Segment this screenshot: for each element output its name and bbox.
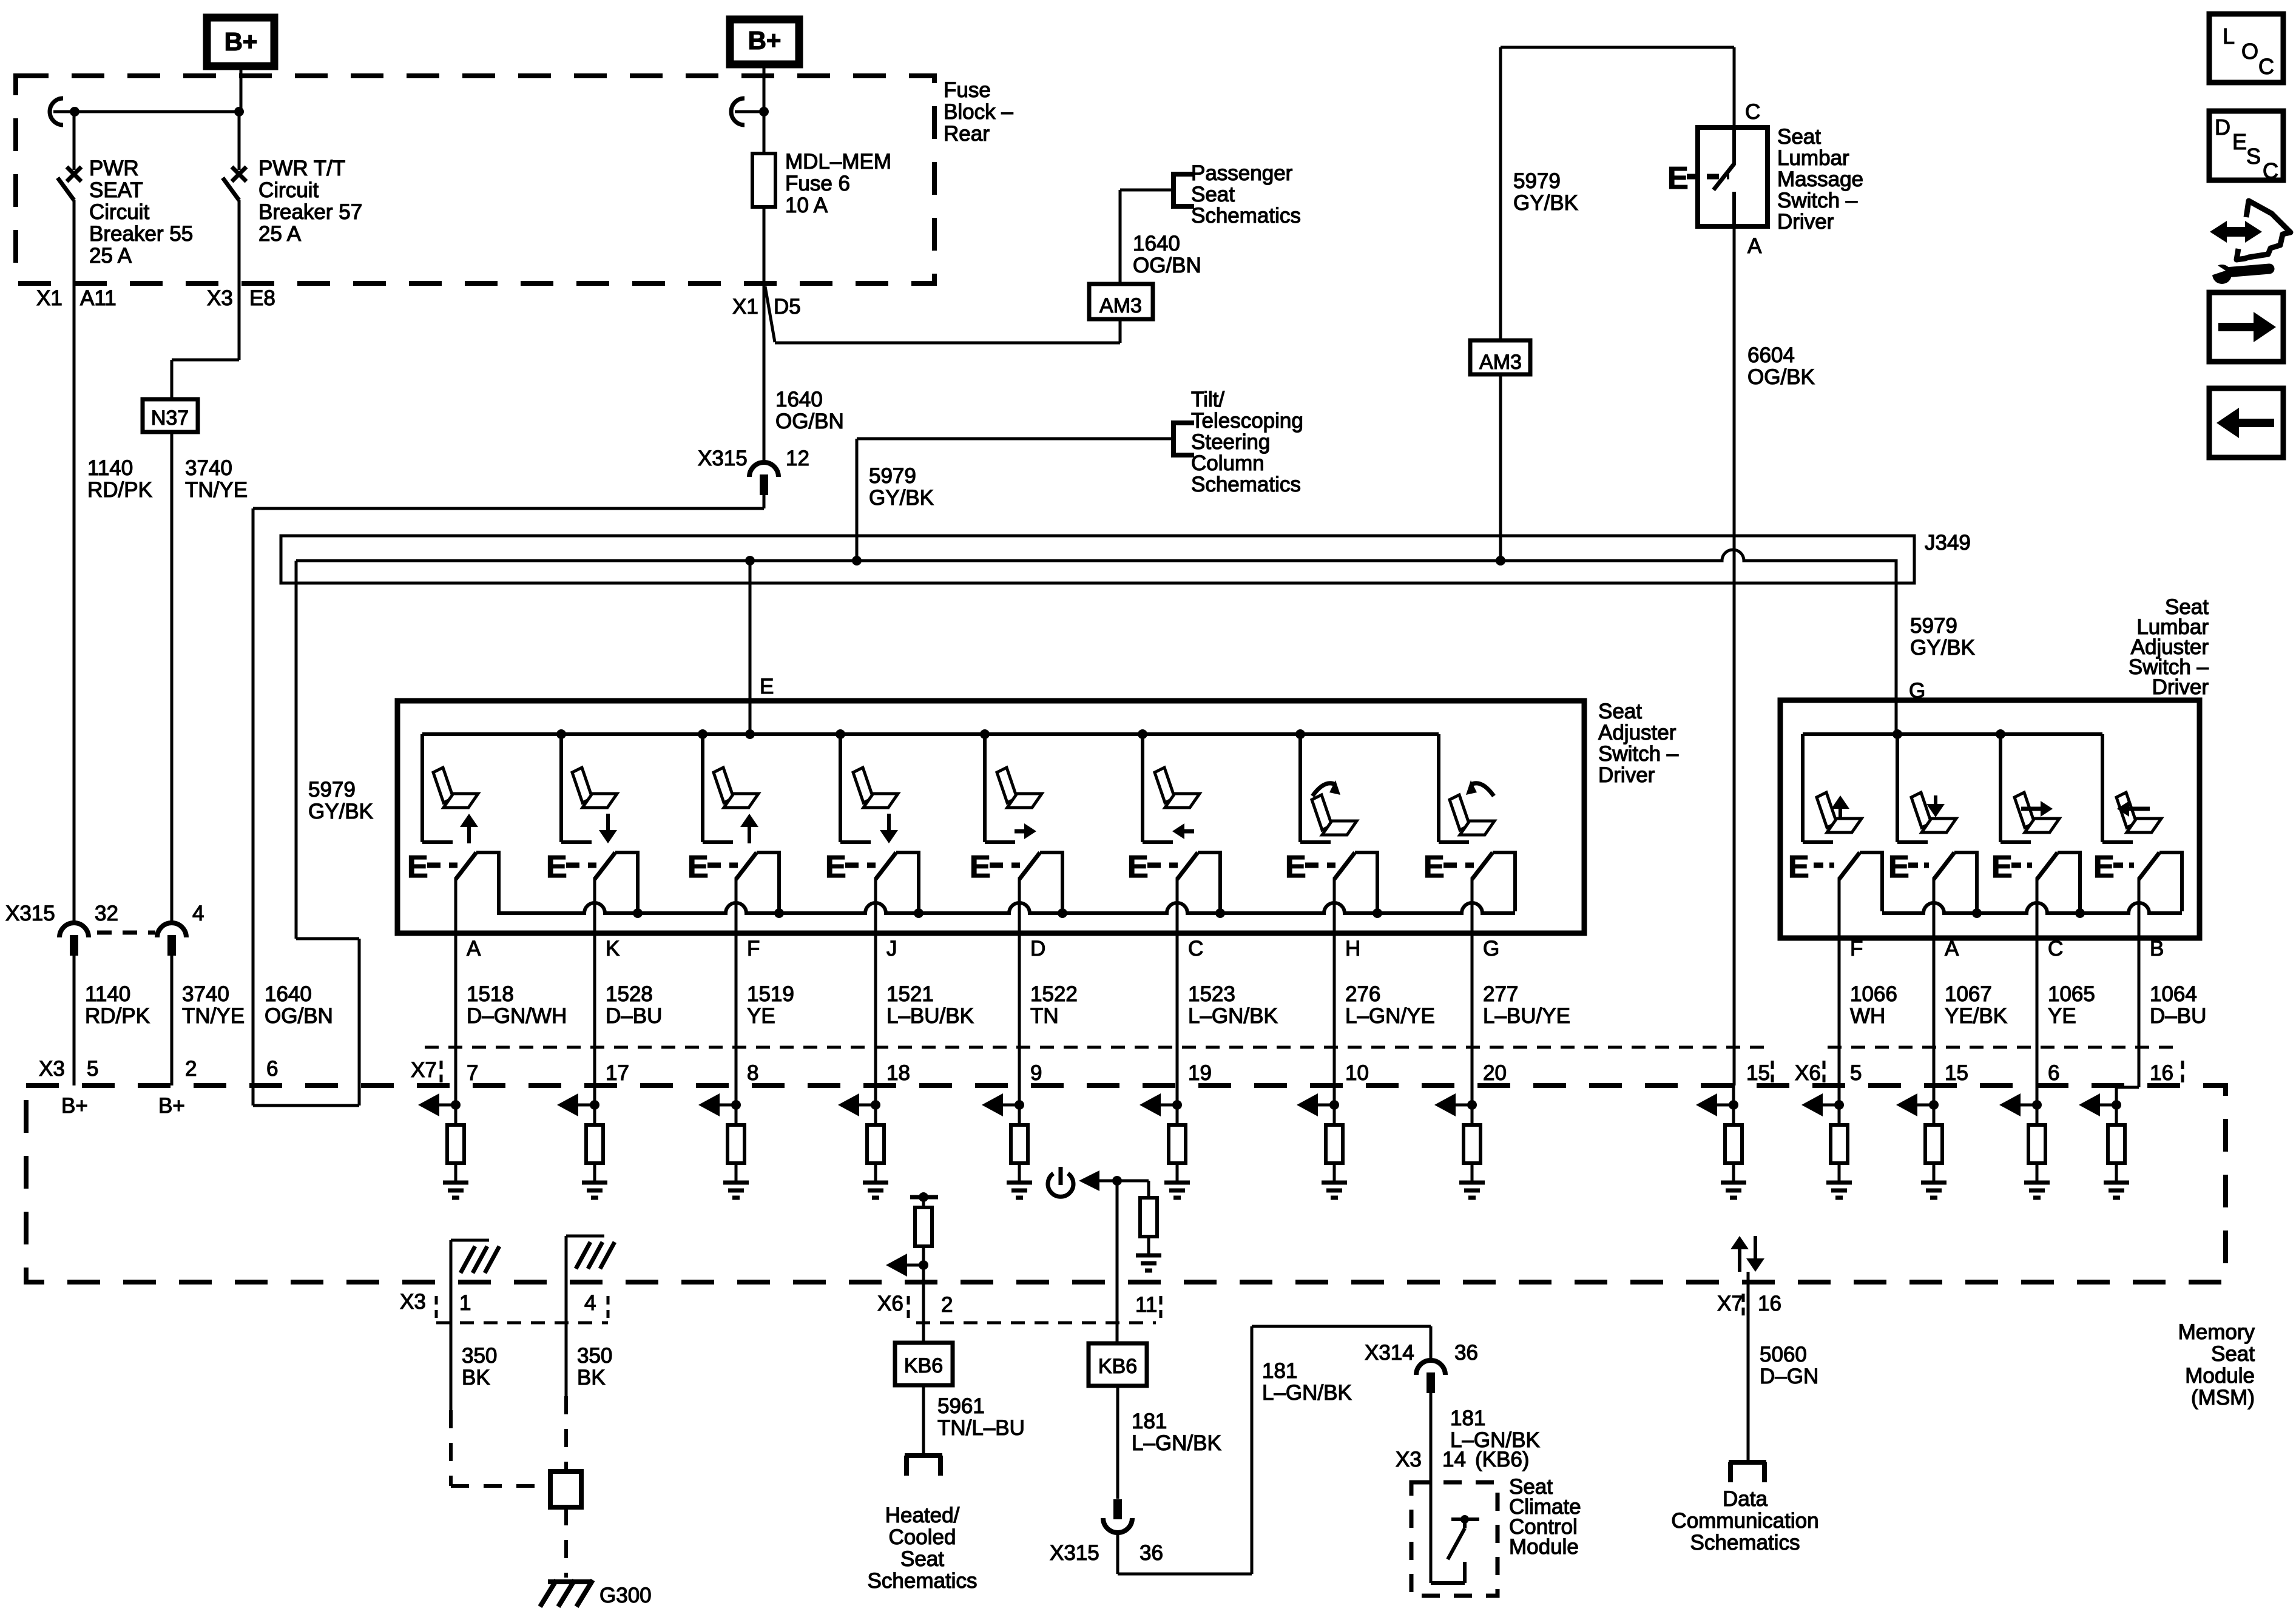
splice AM3 (passenger seat) <box>1089 284 1153 319</box>
svg-text:X6: X6 <box>877 1292 903 1315</box>
icon arrow left <box>2209 388 2283 457</box>
switch unit A <box>420 734 424 842</box>
ref bracket data communication <box>1729 1460 1766 1465</box>
svg-text:OG/BN: OG/BN <box>775 410 844 433</box>
svg-text:X315: X315 <box>5 902 55 925</box>
svg-text:OG/BN: OG/BN <box>1133 254 1201 277</box>
svg-text:X315: X315 <box>1050 1541 1099 1565</box>
svg-text:WH: WH <box>1850 1004 1885 1028</box>
svg-text:D–GN: D–GN <box>1760 1365 1818 1388</box>
splice N37 <box>143 399 198 432</box>
svg-text:X6: X6 <box>1795 1061 1821 1085</box>
power feed B+ 2 <box>730 19 799 64</box>
svg-text:5: 5 <box>1850 1061 1862 1085</box>
svg-text:PWR: PWR <box>89 157 139 180</box>
svg-text:C: C <box>2048 937 2063 960</box>
svg-text:3740: 3740 <box>182 982 229 1006</box>
svg-text:16: 16 <box>1758 1292 1781 1315</box>
svg-text:181: 181 <box>1450 1406 1485 1430</box>
splice (ground) <box>550 1471 581 1507</box>
svg-text:1640: 1640 <box>265 982 312 1006</box>
wire 5979 via AM3 to massage switch <box>1499 47 1502 340</box>
svg-text:19: 19 <box>1188 1061 1212 1085</box>
svg-text:1140: 1140 <box>85 982 130 1006</box>
svg-text:J: J <box>886 937 897 960</box>
svg-text:36: 36 <box>1140 1541 1163 1565</box>
svg-text:1522: 1522 <box>1030 982 1078 1006</box>
lumbar switch unit A <box>1896 734 1899 842</box>
svg-text:4: 4 <box>584 1291 596 1315</box>
svg-text:Fuse 6: Fuse 6 <box>785 172 850 195</box>
svg-text:KB6: KB6 <box>1098 1355 1137 1378</box>
svg-text:C: C <box>1745 100 1760 124</box>
connector X6 strip <box>1828 1046 2178 1049</box>
splice AM3 (massage) <box>1470 340 1530 374</box>
svg-text:B+: B+ <box>748 26 782 55</box>
lumbar switch unit C <box>1999 734 2002 842</box>
svg-text:TN/YE: TN/YE <box>185 478 248 502</box>
switch inside seat climate control module <box>1431 1581 1465 1585</box>
svg-text:X7: X7 <box>1717 1292 1743 1315</box>
circuit breaker 55 <box>73 112 76 170</box>
svg-text:32: 32 <box>95 902 118 925</box>
svg-text:2: 2 <box>941 1293 953 1317</box>
svg-text:25 A: 25 A <box>89 244 132 268</box>
svg-text:E: E <box>687 849 709 885</box>
svg-text:RD/PK: RD/PK <box>87 478 152 502</box>
switch unit H <box>1298 734 1302 842</box>
circuit breaker 57 <box>238 112 241 170</box>
svg-text:L–GN/BK: L–GN/BK <box>1188 1004 1278 1028</box>
svg-text:1640: 1640 <box>775 388 823 411</box>
icon arrow right <box>2209 292 2283 362</box>
svg-text:Steering: Steering <box>1191 430 1270 454</box>
wire 6604 OG/BK <box>1733 226 1736 1085</box>
svg-text:Breaker 57: Breaker 57 <box>258 200 362 224</box>
svg-text:Circuit: Circuit <box>89 200 149 224</box>
svg-text:YE: YE <box>2048 1004 2076 1028</box>
svg-text:Tilt/: Tilt/ <box>1191 388 1224 411</box>
svg-text:6: 6 <box>2048 1061 2059 1085</box>
memory seat module dashed box <box>26 1085 2226 1282</box>
ref bracket passenger seat schematics <box>1171 172 1176 209</box>
svg-text:Schematics: Schematics <box>1690 1531 1800 1555</box>
svg-text:5979: 5979 <box>1513 169 1561 193</box>
svg-text:Seat: Seat <box>1191 183 1235 206</box>
svg-text:A: A <box>467 937 481 960</box>
svg-text:1067: 1067 <box>1945 982 1992 1006</box>
switch unit K <box>559 734 563 842</box>
svg-text:1066: 1066 <box>1850 982 1897 1006</box>
svg-text:GY/BK: GY/BK <box>308 800 373 823</box>
svg-text:SEAT: SEAT <box>89 178 143 202</box>
svg-text:Column: Column <box>1191 451 1264 475</box>
svg-text:5060: 5060 <box>1760 1343 1807 1366</box>
svg-text:TN/L–BU: TN/L–BU <box>937 1416 1025 1440</box>
wire from breaker 57 to N37 <box>238 200 241 360</box>
svg-text:A11: A11 <box>80 286 116 310</box>
switch feed bus E <box>422 732 1439 736</box>
svg-text:D–BU: D–BU <box>606 1004 662 1028</box>
svg-text:AM3: AM3 <box>1479 351 1522 374</box>
svg-text:YE/BK: YE/BK <box>1945 1004 2007 1028</box>
switch unit D <box>983 734 987 842</box>
wire 3740 upper <box>171 432 174 923</box>
svg-text:Circuit: Circuit <box>258 178 319 202</box>
data communication output (X7 pin 16) <box>1730 1236 1749 1249</box>
wire 1140 upper <box>73 200 76 923</box>
svg-text:F: F <box>1850 937 1863 960</box>
switch common rail with hops <box>497 903 1515 913</box>
wire 6604 input pin 15 <box>1729 1100 1738 1110</box>
svg-text:Module: Module <box>1509 1535 1579 1559</box>
svg-text:GY/BK: GY/BK <box>869 486 934 510</box>
svg-text:MDL–MEM: MDL–MEM <box>785 150 891 174</box>
chassis ground pin 1 <box>450 1240 453 1282</box>
svg-text:2: 2 <box>185 1057 197 1081</box>
svg-text:L–GN/BK: L–GN/BK <box>1132 1431 1221 1455</box>
svg-text:E: E <box>2093 849 2115 885</box>
switch unit C <box>1141 734 1144 842</box>
svg-text:E: E <box>546 849 567 885</box>
svg-text:D–GN/WH: D–GN/WH <box>467 1004 567 1028</box>
svg-text:Seat: Seat <box>900 1547 944 1571</box>
svg-text:36: 36 <box>1454 1341 1478 1365</box>
svg-text:181: 181 <box>1262 1359 1297 1383</box>
svg-text:C: C <box>2258 54 2274 79</box>
svg-text:14: 14 <box>1442 1448 1466 1471</box>
X3 bottom connector strip <box>436 1322 608 1325</box>
svg-text:Seat: Seat <box>1777 125 1821 149</box>
svg-text:E: E <box>2232 129 2247 154</box>
svg-text:L–GN/BK: L–GN/BK <box>1262 1381 1352 1405</box>
svg-text:X3: X3 <box>39 1057 65 1081</box>
switch unit J <box>839 734 842 842</box>
svg-text:1523: 1523 <box>1188 982 1235 1006</box>
svg-text:Communication: Communication <box>1671 1509 1818 1533</box>
svg-text:Switch –: Switch – <box>1598 742 1679 766</box>
svg-text:E: E <box>1888 849 1909 885</box>
svg-text:E: E <box>1285 849 1306 885</box>
svg-text:A: A <box>1747 234 1762 258</box>
svg-text:AM3: AM3 <box>1099 294 1142 317</box>
svg-text:Data: Data <box>1723 1487 1768 1511</box>
svg-text:5: 5 <box>87 1057 98 1081</box>
svg-text:25 A: 25 A <box>258 222 302 246</box>
svg-text:RD/PK: RD/PK <box>85 1004 150 1028</box>
heated/cooled seat output (X6 pin 2) <box>910 1195 938 1200</box>
svg-text:11: 11 <box>1135 1293 1157 1317</box>
ref bracket tilt/telescoping <box>1171 420 1176 457</box>
svg-text:18: 18 <box>886 1061 910 1085</box>
svg-text:E: E <box>825 849 846 885</box>
svg-text:F: F <box>747 937 760 960</box>
wire 5979 to E <box>749 561 752 734</box>
svg-text:5979: 5979 <box>308 778 356 802</box>
svg-text:17: 17 <box>606 1061 629 1085</box>
svg-text:16: 16 <box>2150 1061 2173 1085</box>
svg-text:B+: B+ <box>225 27 258 56</box>
lumbar feed bus G <box>1803 732 2102 736</box>
svg-text:A: A <box>1945 937 1959 960</box>
icon LOC <box>2209 14 2283 83</box>
connector X7 strip <box>425 1046 1764 1049</box>
lumbar switch unit B <box>2101 734 2104 842</box>
svg-text:8: 8 <box>747 1061 758 1085</box>
branch to AM3 <box>765 286 775 342</box>
svg-text:D: D <box>2215 115 2230 140</box>
svg-text:L: L <box>2223 24 2235 49</box>
svg-text:L–BU/BK: L–BU/BK <box>886 1004 974 1028</box>
svg-text:E: E <box>1991 849 2013 885</box>
svg-text:6604: 6604 <box>1747 343 1795 367</box>
svg-text:Seat: Seat <box>2211 1342 2255 1366</box>
svg-text:Fuse: Fuse <box>944 78 991 102</box>
svg-text:277: 277 <box>1483 982 1518 1006</box>
svg-text:1518: 1518 <box>467 982 514 1006</box>
svg-text:1: 1 <box>459 1291 471 1315</box>
svg-text:YE: YE <box>747 1004 775 1028</box>
svg-text:E8: E8 <box>249 286 275 310</box>
lumbar switch unit F <box>1801 734 1805 842</box>
seat lumbar adjuster switch driver box <box>1780 700 2200 938</box>
svg-text:1140: 1140 <box>87 456 133 480</box>
svg-text:X3: X3 <box>207 286 233 310</box>
feed into fuse <box>763 64 766 154</box>
ground G300 <box>540 1580 593 1607</box>
splice KB6 (seat climate) <box>1089 1343 1147 1386</box>
svg-text:TN: TN <box>1030 1004 1059 1028</box>
wire 5979 from MSM to splice bus <box>295 561 298 939</box>
svg-text:BK: BK <box>577 1366 606 1389</box>
svg-text:X7: X7 <box>411 1058 437 1082</box>
icon wrench/navigation <box>2210 221 2262 243</box>
svg-text:Passenger: Passenger <box>1191 161 1293 185</box>
svg-text:H: H <box>1345 937 1360 960</box>
svg-text:7: 7 <box>467 1061 478 1085</box>
svg-text:E: E <box>1127 849 1149 885</box>
svg-text:BK: BK <box>462 1366 490 1389</box>
icon DESC <box>2209 111 2283 180</box>
svg-text:G: G <box>1483 937 1499 960</box>
svg-text:4: 4 <box>192 902 204 925</box>
svg-text:E: E <box>1788 849 1809 885</box>
connector X314 pin 36 <box>1430 1326 1433 1361</box>
seat climate control module dashed box <box>1411 1482 1497 1596</box>
svg-text:E: E <box>1667 161 1689 196</box>
svg-text:Heated/: Heated/ <box>885 1504 960 1527</box>
svg-text:15: 15 <box>1746 1061 1770 1085</box>
fuse block rear dashed box <box>16 76 934 283</box>
svg-text:G300: G300 <box>599 1584 652 1607</box>
svg-text:L–BU/YE: L–BU/YE <box>1483 1004 1570 1028</box>
svg-text:X314: X314 <box>1365 1341 1414 1365</box>
svg-text:E: E <box>1423 849 1445 885</box>
svg-text:1528: 1528 <box>606 982 653 1006</box>
svg-text:Seat: Seat <box>1598 700 1642 723</box>
svg-text:Rear: Rear <box>944 122 990 146</box>
svg-text:1521: 1521 <box>886 982 934 1006</box>
svg-text:GY/BK: GY/BK <box>1910 636 1975 660</box>
splice pack J349 ring <box>281 536 1914 583</box>
wire 350 BK pin 4 <box>565 1282 568 1396</box>
svg-text:D: D <box>1030 937 1045 960</box>
svg-text:20: 20 <box>1483 1061 1507 1085</box>
svg-text:1065: 1065 <box>2048 982 2095 1006</box>
wire 350 BK pin 1 <box>450 1282 453 1410</box>
connector X315 pin 36 <box>1113 1499 1122 1519</box>
svg-text:181: 181 <box>1132 1409 1167 1433</box>
feed bus inside fuse block <box>50 98 63 125</box>
svg-text:B: B <box>2150 937 2164 960</box>
svg-text:1640: 1640 <box>1133 232 1180 255</box>
svg-text:Driver: Driver <box>2152 675 2209 699</box>
svg-text:5979: 5979 <box>869 464 916 488</box>
svg-text:Driver: Driver <box>1598 763 1655 787</box>
seat lumbar massage switch driver <box>1698 127 1768 226</box>
svg-text:Memory: Memory <box>2178 1320 2255 1344</box>
switch unit F <box>701 734 704 842</box>
svg-text:X3: X3 <box>1396 1448 1422 1471</box>
svg-text:6: 6 <box>266 1057 278 1081</box>
svg-text:X1: X1 <box>36 286 62 310</box>
ref bracket heated/cooled <box>905 1453 942 1458</box>
svg-text:TN/YE: TN/YE <box>182 1004 245 1028</box>
svg-text:15: 15 <box>1945 1061 1968 1085</box>
svg-text:Telescoping: Telescoping <box>1191 409 1303 433</box>
svg-text:X3: X3 <box>400 1290 426 1314</box>
svg-text:X315: X315 <box>698 447 748 470</box>
svg-text:Breaker 55: Breaker 55 <box>89 222 193 246</box>
svg-text:PWR T/T: PWR T/T <box>258 157 345 180</box>
svg-text:Schematics: Schematics <box>1191 204 1301 228</box>
svg-text:E: E <box>760 675 774 698</box>
svg-text:Block –: Block – <box>944 100 1013 124</box>
svg-text:10 A: 10 A <box>785 194 828 217</box>
wire 1640 runs left and down to MSM pin 6 <box>253 507 764 510</box>
svg-text:1064: 1064 <box>2150 982 2197 1006</box>
svg-text:KB6: KB6 <box>904 1354 943 1377</box>
svg-text:J349: J349 <box>1925 531 1971 555</box>
svg-text:X1: X1 <box>732 295 758 319</box>
svg-text:L–GN/YE: L–GN/YE <box>1345 1004 1435 1028</box>
svg-text:1519: 1519 <box>747 982 794 1006</box>
svg-text:C: C <box>1188 937 1203 960</box>
svg-text:Schematics: Schematics <box>868 1569 977 1593</box>
svg-text:Driver: Driver <box>1777 210 1834 234</box>
svg-text:E: E <box>407 849 428 885</box>
svg-text:5979: 5979 <box>1910 614 1957 638</box>
svg-text:OG/BK: OG/BK <box>1747 365 1815 389</box>
svg-text:Switch –: Switch – <box>1777 189 1858 212</box>
tilt/telescoping wire 5979 <box>856 439 859 561</box>
splice KB6 (heated/cooled) <box>895 1343 953 1385</box>
svg-text:350: 350 <box>462 1344 497 1368</box>
svg-text:B+: B+ <box>61 1094 88 1118</box>
svg-text:E: E <box>970 849 991 885</box>
chassis ground pin 4 <box>565 1236 568 1282</box>
svg-text:9: 9 <box>1030 1061 1042 1085</box>
svg-text:Massage: Massage <box>1777 167 1863 191</box>
seat adjuster switch driver box <box>397 701 1584 933</box>
svg-text:Lumbar: Lumbar <box>1777 146 1849 170</box>
svg-text:Cooled: Cooled <box>889 1525 956 1549</box>
svg-text:N37: N37 <box>151 407 189 430</box>
svg-text:OG/BN: OG/BN <box>265 1004 333 1028</box>
svg-text:Module: Module <box>2185 1364 2255 1388</box>
svg-text:O: O <box>2241 39 2258 64</box>
svg-text:10: 10 <box>1345 1061 1369 1085</box>
svg-text:350: 350 <box>577 1344 612 1368</box>
svg-text:12: 12 <box>786 447 809 470</box>
switch unit G <box>1437 734 1440 842</box>
splice bus 5979 with hop over 6604 <box>296 550 1896 734</box>
fuse MDL-MEM fuse 6 <box>752 154 775 207</box>
svg-text:Schematics: Schematics <box>1191 473 1301 496</box>
svg-text:C: C <box>2263 158 2278 183</box>
svg-text:S: S <box>2246 144 2261 169</box>
svg-text:D–BU: D–BU <box>2150 1004 2206 1028</box>
lumbar rail with hops <box>1882 903 2182 913</box>
wire 181 loop to X314 <box>1116 1533 1119 1574</box>
svg-text:B+: B+ <box>158 1094 185 1118</box>
svg-text:5961: 5961 <box>937 1394 985 1418</box>
power feed B+ 1 <box>207 18 274 66</box>
svg-text:3740: 3740 <box>185 456 232 480</box>
svg-text:276: 276 <box>1345 982 1380 1006</box>
svg-text:GY/BK: GY/BK <box>1513 191 1578 215</box>
svg-text:(MSM): (MSM) <box>2191 1386 2255 1409</box>
svg-text:D5: D5 <box>774 295 801 319</box>
power icon <box>1048 1173 1073 1197</box>
svg-text:K: K <box>606 937 620 960</box>
svg-text:(KB6): (KB6) <box>1475 1448 1529 1471</box>
svg-text:Adjuster: Adjuster <box>1598 721 1676 744</box>
